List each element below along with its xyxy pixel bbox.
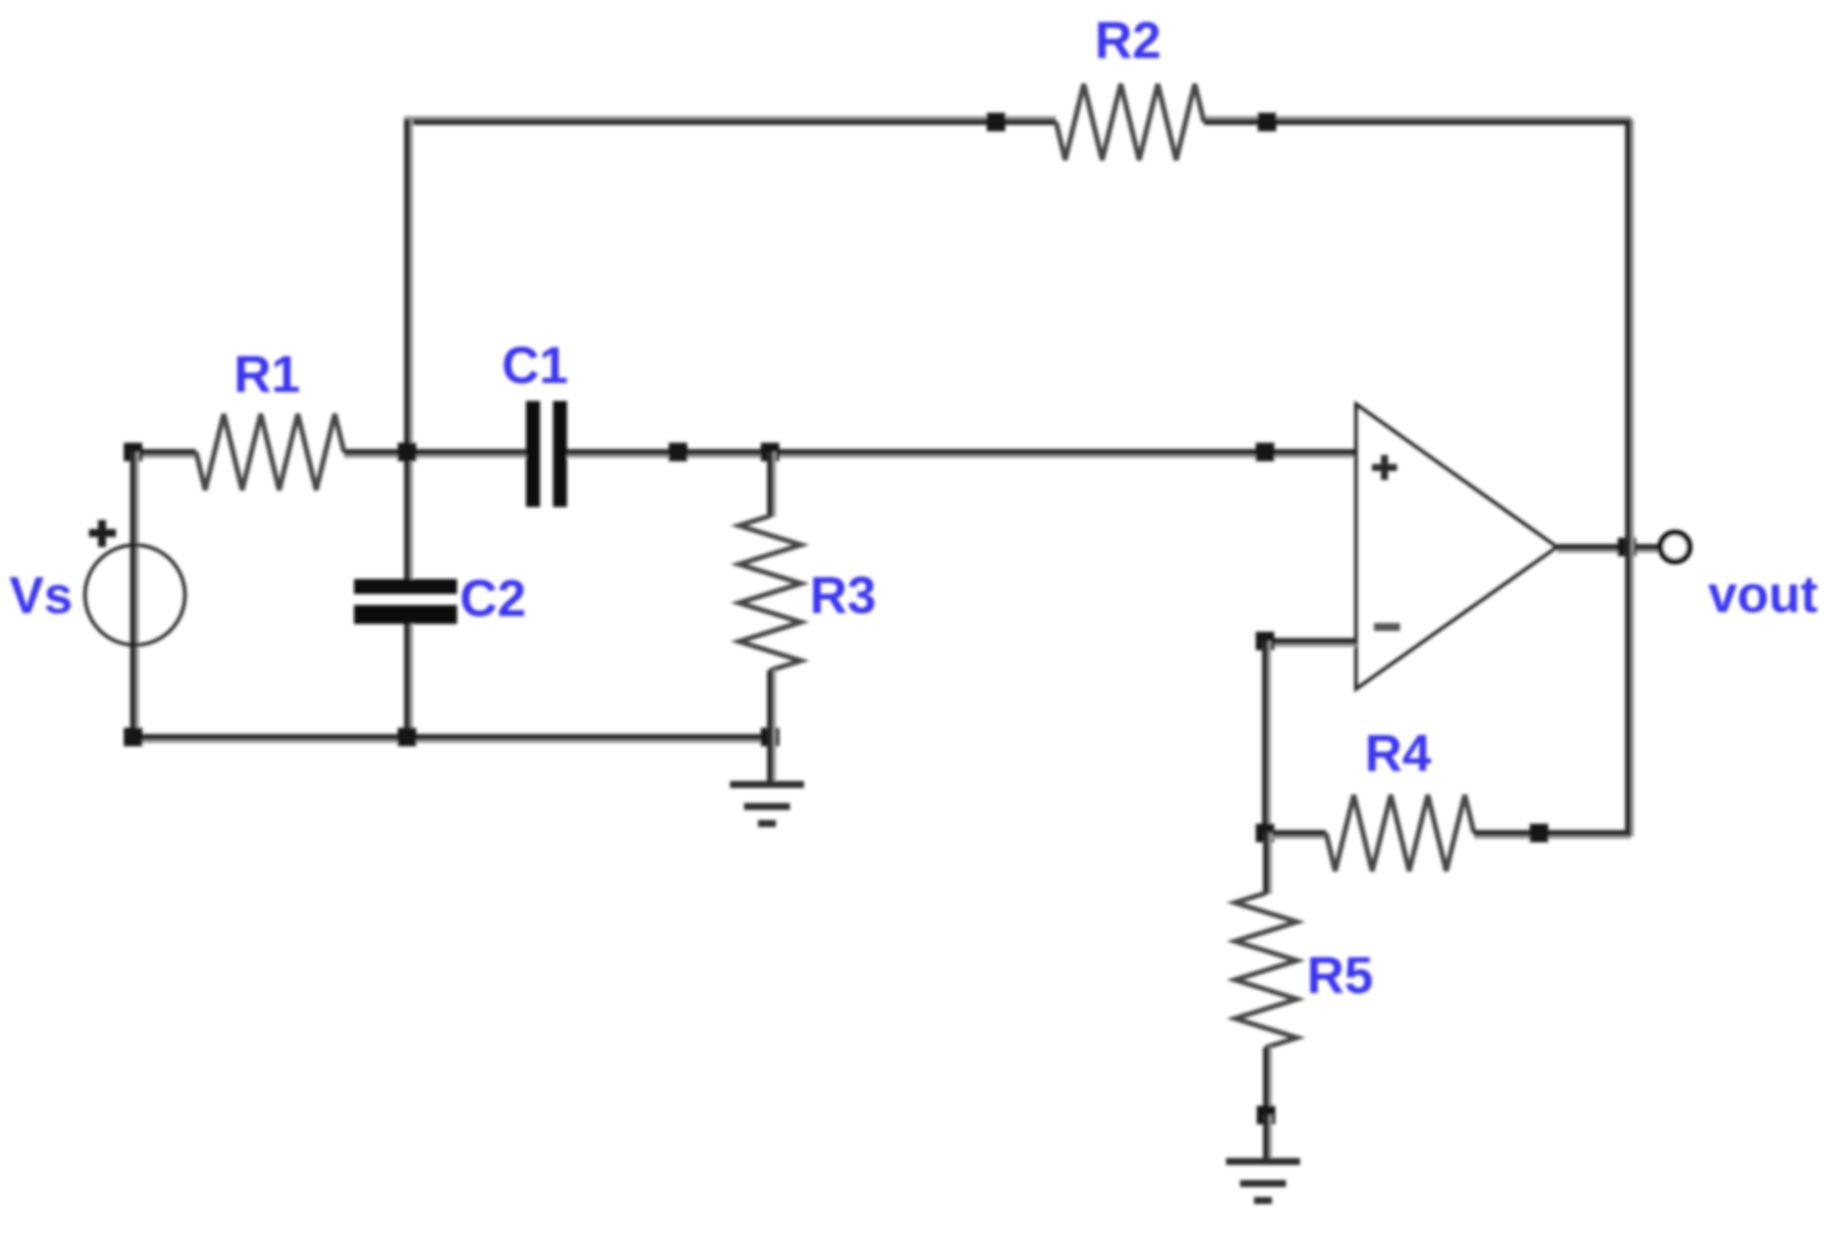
svg-text:R3: R3: [810, 567, 876, 625]
svg-text:R1: R1: [234, 346, 300, 404]
svg-text:C1: C1: [502, 337, 568, 395]
svg-text:vout: vout: [1708, 566, 1818, 624]
svg-text:R4: R4: [1365, 725, 1432, 783]
svg-text:R2: R2: [1095, 12, 1161, 70]
svg-text:Vs: Vs: [9, 567, 73, 625]
svg-text:C2: C2: [460, 570, 526, 628]
svg-text:R5: R5: [1307, 947, 1373, 1005]
